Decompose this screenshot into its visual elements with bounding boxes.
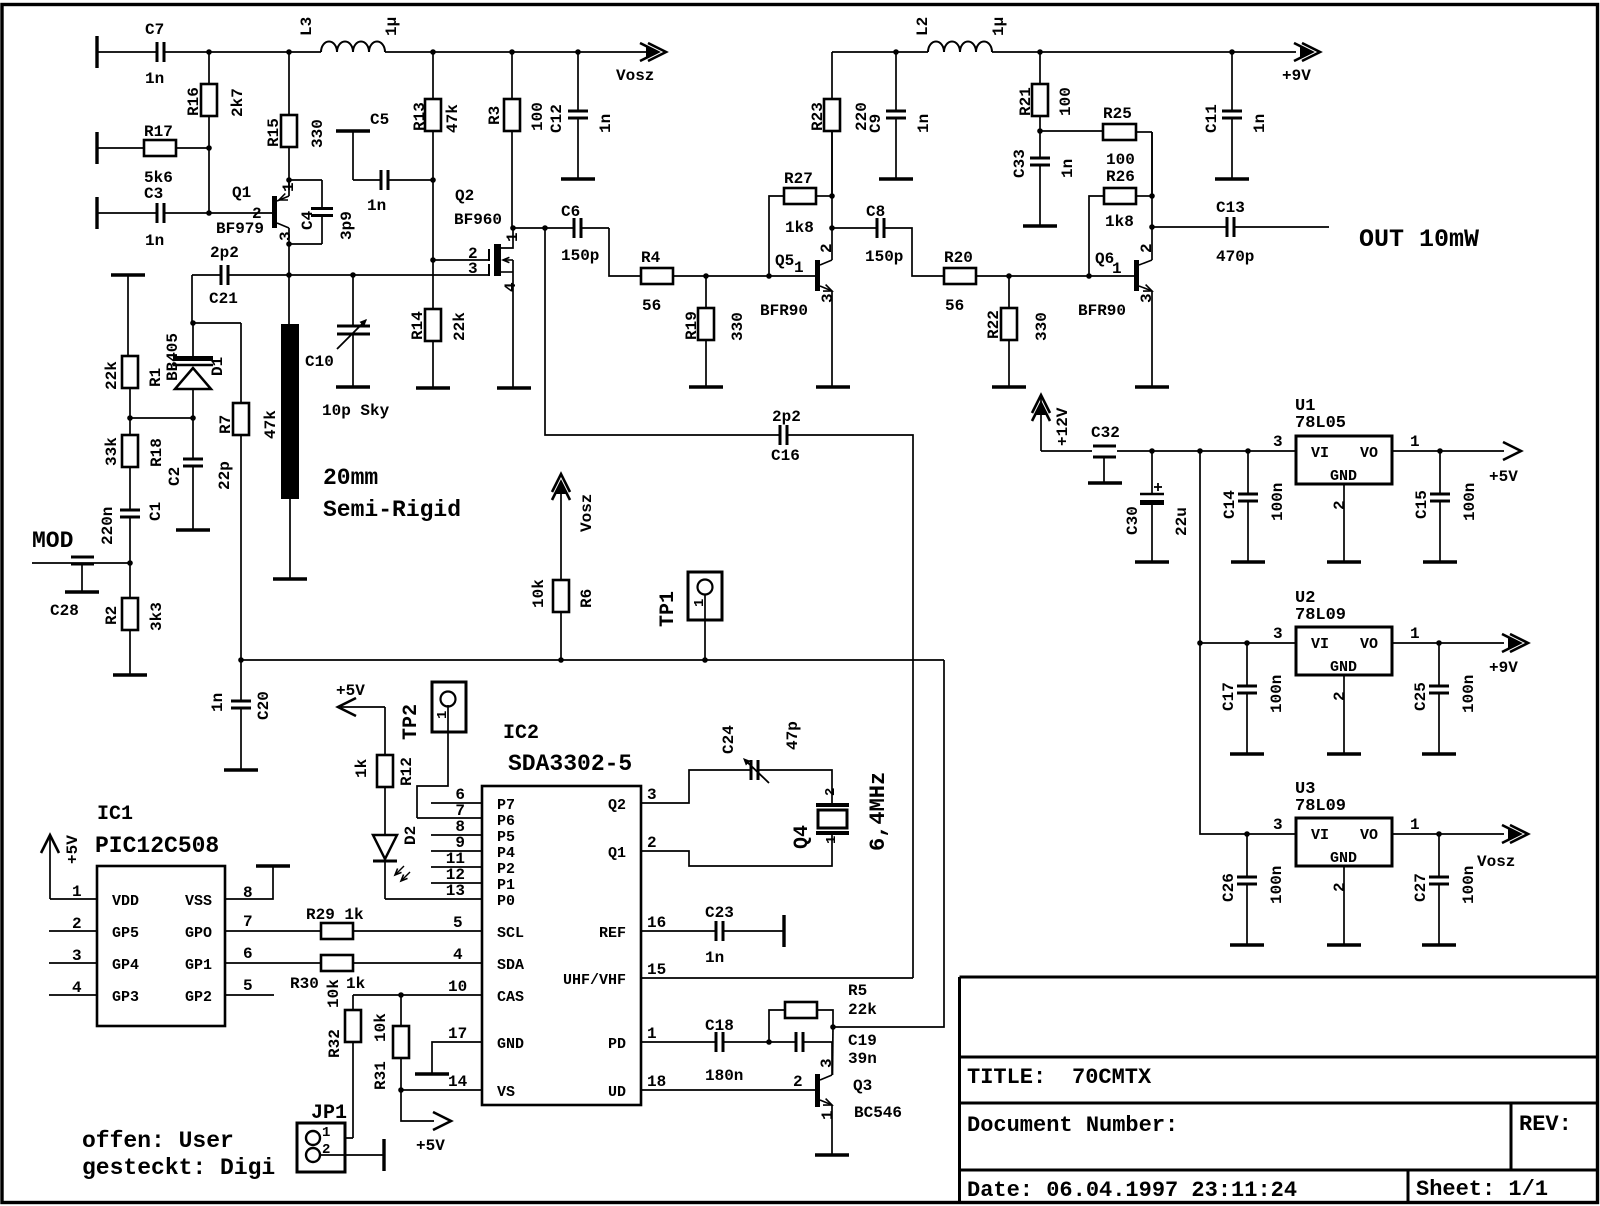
svg-text:C32: C32 [1091, 424, 1120, 442]
svg-text:22k: 22k [103, 361, 121, 390]
svg-text:R20: R20 [944, 249, 973, 267]
svg-text:TP2: TP2 [400, 704, 423, 740]
svg-text:10p Sky: 10p Sky [322, 402, 390, 420]
svg-text:C18: C18 [705, 1017, 734, 1035]
svg-text:1k: 1k [353, 758, 371, 778]
svg-text:1n: 1n [915, 114, 933, 133]
svg-text:3: 3 [1273, 625, 1283, 643]
svg-text:100n: 100n [1269, 483, 1287, 521]
svg-text:3: 3 [468, 260, 478, 278]
svg-text:R27: R27 [784, 170, 813, 188]
svg-text:15: 15 [647, 961, 666, 979]
svg-text:P0: P0 [497, 893, 515, 910]
svg-text:C3: C3 [144, 185, 163, 203]
svg-text:C26: C26 [1220, 873, 1238, 902]
svg-text:Vosz: Vosz [1477, 853, 1515, 871]
svg-text:20mm: 20mm [323, 465, 378, 491]
svg-text:220n: 220n [99, 507, 117, 545]
svg-text:VO: VO [1360, 636, 1378, 653]
svg-text:L3: L3 [298, 17, 316, 36]
svg-text:VO: VO [1360, 827, 1378, 844]
svg-text:R7: R7 [217, 415, 235, 434]
svg-text:13: 13 [446, 882, 465, 900]
svg-text:TP1: TP1 [657, 591, 680, 627]
svg-text:C1: C1 [147, 502, 165, 521]
svg-text:C17: C17 [1220, 682, 1238, 711]
svg-text:1n: 1n [1059, 159, 1077, 178]
svg-text:GP1: GP1 [185, 957, 212, 974]
svg-text:SDA3302-5: SDA3302-5 [508, 751, 632, 777]
svg-text:1k8: 1k8 [1105, 213, 1134, 231]
svg-text:R23: R23 [809, 102, 827, 131]
svg-text:1: 1 [504, 232, 522, 242]
svg-text:Sheet: 1/1: Sheet: 1/1 [1416, 1177, 1548, 1202]
svg-text:C7: C7 [145, 21, 164, 39]
svg-text:Q2: Q2 [455, 187, 474, 205]
svg-text:GND: GND [1330, 659, 1357, 676]
svg-text:17: 17 [448, 1025, 467, 1043]
svg-text:R31: R31 [372, 1061, 390, 1090]
svg-text:R6: R6 [578, 589, 596, 608]
svg-text:C2: C2 [166, 467, 184, 486]
svg-text:Document Number:: Document Number: [967, 1113, 1178, 1138]
svg-text:GP3: GP3 [112, 989, 139, 1006]
svg-text:1: 1 [1410, 816, 1420, 834]
svg-text:R5: R5 [848, 982, 867, 1000]
svg-text:BF960: BF960 [454, 211, 502, 229]
svg-text:1n: 1n [705, 949, 724, 967]
svg-text:Date: 06.04.1997 23:11:24: Date: 06.04.1997 23:11:24 [967, 1178, 1297, 1203]
svg-text:MOD: MOD [32, 528, 73, 554]
svg-text:3: 3 [277, 231, 295, 241]
svg-text:R3: R3 [486, 106, 504, 125]
svg-text:3: 3 [1273, 816, 1283, 834]
svg-text:JP1: JP1 [311, 1102, 347, 1125]
svg-text:R4: R4 [641, 249, 661, 267]
svg-text:180n: 180n [705, 1067, 743, 1085]
svg-text:C8: C8 [866, 203, 885, 221]
svg-text:Q3: Q3 [853, 1077, 872, 1095]
svg-text:1: 1 [647, 1025, 657, 1043]
svg-text:+5V: +5V [1489, 468, 1518, 486]
svg-text:R12: R12 [398, 757, 416, 786]
svg-text:C13: C13 [1216, 199, 1245, 217]
svg-text:R25: R25 [1103, 105, 1132, 123]
svg-text:IC1: IC1 [97, 803, 133, 826]
svg-text:R18: R18 [148, 438, 166, 467]
svg-text:4: 4 [453, 946, 463, 964]
svg-text:R32: R32 [326, 1029, 344, 1058]
svg-text:100: 100 [1106, 151, 1135, 169]
svg-text:Semi-Rigid: Semi-Rigid [323, 497, 461, 523]
svg-text:UD: UD [608, 1084, 626, 1101]
svg-text:56: 56 [945, 297, 964, 315]
svg-text:150p: 150p [561, 247, 599, 265]
svg-text:+5V: +5V [416, 1137, 445, 1155]
svg-text:UHF/VHF: UHF/VHF [563, 972, 626, 989]
svg-text:D2: D2 [402, 826, 420, 845]
svg-text:C28: C28 [50, 602, 79, 620]
svg-text:1k: 1k [346, 975, 366, 993]
svg-text:1µ: 1µ [990, 17, 1008, 36]
svg-text:100n: 100n [1461, 483, 1479, 521]
svg-text:16: 16 [647, 914, 666, 932]
svg-text:C16: C16 [771, 447, 800, 465]
svg-text:1n: 1n [597, 114, 615, 133]
svg-text:2: 2 [1331, 500, 1349, 510]
svg-text:SCL: SCL [497, 925, 524, 942]
svg-text:R29 1k: R29 1k [306, 906, 364, 924]
svg-text:1: 1 [794, 259, 804, 277]
svg-text:330: 330 [729, 312, 747, 341]
svg-text:10k: 10k [530, 579, 548, 608]
svg-text:Vosz: Vosz [578, 494, 596, 532]
svg-text:C9: C9 [867, 114, 885, 133]
svg-text:Q5: Q5 [775, 252, 794, 270]
svg-text:C15: C15 [1413, 490, 1431, 519]
svg-text:1: 1 [692, 599, 708, 607]
svg-text:VI: VI [1311, 445, 1329, 462]
svg-text:3p9: 3p9 [338, 211, 356, 240]
svg-text:P4: P4 [497, 845, 515, 862]
svg-text:R26: R26 [1106, 168, 1135, 186]
svg-text:100n: 100n [1460, 866, 1478, 904]
svg-text:R30: R30 [290, 975, 319, 993]
svg-text:OUT 10mW: OUT 10mW [1359, 225, 1479, 254]
svg-text:47k: 47k [444, 104, 462, 133]
svg-text:470p: 470p [1216, 248, 1254, 266]
svg-text:3: 3 [72, 947, 82, 965]
svg-text:100n: 100n [1268, 675, 1286, 713]
svg-text:1n: 1n [145, 232, 164, 250]
svg-text:78L09: 78L09 [1295, 797, 1346, 816]
svg-text:1n: 1n [145, 70, 164, 88]
svg-text:5: 5 [243, 977, 253, 995]
svg-text:18: 18 [647, 1073, 666, 1091]
svg-text:Vosz: Vosz [616, 67, 654, 85]
svg-text:C11: C11 [1203, 104, 1221, 133]
svg-text:C12: C12 [548, 104, 566, 133]
svg-text:PIC12C508: PIC12C508 [95, 833, 219, 859]
svg-text:C10: C10 [305, 353, 334, 371]
svg-text:3: 3 [818, 1058, 836, 1068]
svg-text:+9V: +9V [1282, 67, 1311, 85]
svg-text:330: 330 [309, 119, 327, 148]
svg-text:GP5: GP5 [112, 925, 139, 942]
svg-text:L2: L2 [914, 17, 932, 36]
svg-text:3: 3 [647, 786, 657, 804]
svg-text:47p: 47p [784, 721, 802, 750]
svg-text:2: 2 [72, 915, 82, 933]
svg-text:2k7: 2k7 [229, 88, 247, 117]
svg-text:2: 2 [1331, 691, 1349, 701]
svg-text:3k3: 3k3 [148, 602, 166, 631]
svg-text:C5: C5 [370, 111, 389, 129]
svg-text:REV:: REV: [1519, 1112, 1572, 1137]
svg-text:TITLE:: TITLE: [967, 1065, 1046, 1090]
svg-text:1: 1 [1410, 625, 1420, 643]
svg-text:4: 4 [502, 282, 520, 292]
svg-text:Q4: Q4 [791, 825, 814, 849]
svg-text:R19: R19 [683, 311, 701, 340]
svg-text:2p2: 2p2 [210, 244, 239, 262]
svg-text:GND: GND [1330, 468, 1357, 485]
svg-text:VS: VS [497, 1084, 515, 1101]
svg-text:R1: R1 [147, 368, 165, 387]
svg-text:CAS: CAS [497, 989, 524, 1006]
svg-text:330: 330 [1033, 312, 1051, 341]
svg-text:1: 1 [824, 836, 840, 844]
svg-text:1: 1 [72, 883, 82, 901]
svg-text:Q1: Q1 [608, 845, 626, 862]
svg-text:P2: P2 [497, 861, 515, 878]
svg-text:GPO: GPO [185, 925, 212, 942]
svg-text:C25: C25 [1412, 682, 1430, 711]
svg-text:2: 2 [818, 243, 836, 253]
svg-text:3: 3 [1273, 433, 1283, 451]
svg-text:1n: 1n [209, 693, 227, 712]
svg-text:VI: VI [1311, 636, 1329, 653]
svg-text:P1: P1 [497, 877, 515, 894]
svg-text:R2: R2 [103, 606, 121, 625]
svg-text:GP4: GP4 [112, 957, 139, 974]
svg-text:R17: R17 [144, 123, 173, 141]
svg-text:2: 2 [793, 1073, 803, 1091]
svg-text:BB405: BB405 [164, 333, 182, 381]
svg-text:10k: 10k [372, 1013, 390, 1042]
svg-text:GP2: GP2 [185, 989, 212, 1006]
svg-text:33k: 33k [103, 437, 121, 466]
svg-text:22k: 22k [848, 1001, 877, 1019]
svg-text:C33: C33 [1011, 149, 1029, 178]
svg-text:R15: R15 [265, 118, 283, 147]
svg-text:+5V: +5V [64, 835, 82, 864]
svg-text:100n: 100n [1268, 866, 1286, 904]
svg-text:VSS: VSS [185, 893, 212, 910]
svg-text:offen: User: offen: User [82, 1128, 234, 1154]
svg-text:47k: 47k [262, 410, 280, 439]
svg-text:GND: GND [1330, 850, 1357, 867]
svg-text:VI: VI [1311, 827, 1329, 844]
svg-text:6,4MHz: 6,4MHz [866, 772, 891, 851]
svg-text:14: 14 [448, 1073, 468, 1091]
svg-text:2: 2 [322, 1142, 330, 1158]
svg-text:PD: PD [608, 1036, 626, 1053]
svg-text:2: 2 [823, 788, 839, 796]
svg-text:78L09: 78L09 [1295, 606, 1346, 625]
svg-text:BFR90: BFR90 [760, 302, 808, 320]
svg-text:C19: C19 [848, 1032, 877, 1050]
svg-text:1: 1 [819, 1110, 837, 1120]
svg-text:3: 3 [819, 293, 837, 303]
svg-text:P5: P5 [497, 829, 515, 846]
svg-text:1: 1 [322, 1125, 330, 1141]
svg-text:2: 2 [1138, 243, 1156, 253]
svg-text:7: 7 [243, 913, 253, 931]
svg-text:8: 8 [243, 884, 253, 902]
svg-text:C21: C21 [209, 290, 238, 308]
svg-text:56: 56 [642, 297, 661, 315]
svg-text:R21: R21 [1017, 87, 1035, 116]
svg-text:C23: C23 [705, 904, 734, 922]
svg-text:C14: C14 [1221, 490, 1239, 519]
svg-text:Q1: Q1 [232, 184, 251, 202]
svg-text:+12V: +12V [1054, 407, 1072, 446]
svg-text:gesteckt: Digi: gesteckt: Digi [82, 1155, 275, 1181]
svg-text:1: 1 [280, 182, 298, 192]
svg-text:100: 100 [1057, 87, 1075, 116]
svg-text:IC2: IC2 [503, 722, 539, 745]
svg-text:BFR90: BFR90 [1078, 302, 1126, 320]
svg-text:P7: P7 [497, 797, 515, 814]
svg-text:+5V: +5V [336, 682, 365, 700]
svg-text:C4: C4 [299, 210, 317, 230]
svg-text:P6: P6 [497, 813, 515, 830]
svg-text:4: 4 [72, 979, 82, 997]
svg-text:+9V: +9V [1489, 659, 1518, 677]
svg-text:39n: 39n [848, 1050, 877, 1068]
svg-text:BC546: BC546 [854, 1104, 902, 1122]
svg-text:BF979: BF979 [216, 220, 264, 238]
svg-text:1k8: 1k8 [785, 219, 814, 237]
svg-text:6: 6 [243, 945, 253, 963]
svg-text:D1: D1 [209, 357, 227, 376]
svg-text:R14: R14 [409, 311, 427, 340]
svg-text:5: 5 [453, 914, 463, 932]
svg-text:VDD: VDD [112, 893, 139, 910]
svg-text:1µ: 1µ [383, 17, 401, 36]
svg-text:1: 1 [1410, 433, 1420, 451]
svg-text:22p: 22p [216, 461, 234, 490]
svg-text:R22: R22 [985, 310, 1003, 339]
svg-text:Q2: Q2 [608, 797, 626, 814]
svg-text:3: 3 [1138, 293, 1156, 303]
svg-text:REF: REF [599, 925, 626, 942]
svg-text:100n: 100n [1460, 675, 1478, 713]
svg-text:GND: GND [497, 1036, 524, 1053]
svg-text:C6: C6 [561, 203, 580, 221]
svg-text:C27: C27 [1412, 873, 1430, 902]
svg-text:22u: 22u [1173, 507, 1191, 536]
svg-text:78L05: 78L05 [1295, 414, 1346, 433]
svg-text:1n: 1n [1251, 114, 1269, 133]
svg-text:R16: R16 [185, 87, 203, 116]
svg-text:2p2: 2p2 [772, 408, 801, 426]
svg-text:VO: VO [1360, 445, 1378, 462]
svg-text:C24: C24 [720, 725, 738, 754]
svg-text:2: 2 [1331, 882, 1349, 892]
svg-text:1: 1 [1112, 260, 1122, 278]
svg-text:C20: C20 [255, 691, 273, 720]
svg-text:22k: 22k [451, 312, 469, 341]
svg-text:R13: R13 [411, 102, 429, 131]
svg-text:SDA: SDA [497, 957, 524, 974]
svg-text:C30: C30 [1124, 506, 1142, 535]
svg-text:150p: 150p [865, 248, 903, 266]
svg-text:100: 100 [529, 102, 547, 131]
svg-text:70CMTX: 70CMTX [1072, 1065, 1152, 1090]
svg-text:10k: 10k [325, 979, 343, 1008]
svg-text:2: 2 [647, 834, 657, 852]
svg-text:10: 10 [448, 978, 467, 996]
svg-text:1n: 1n [367, 197, 386, 215]
